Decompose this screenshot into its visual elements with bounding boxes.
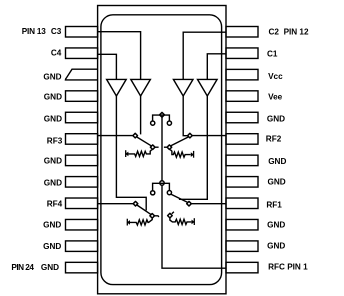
svg-text:RFC PIN 1: RFC PIN 1	[268, 263, 308, 272]
wire C4 to amp A1 input	[98, 54, 117, 79]
svg-text:GND: GND	[44, 93, 62, 102]
wire C2 to amp A3 input	[183, 32, 226, 79]
pin box right 11 GND	[226, 241, 258, 252]
svg-text:GND: GND	[41, 263, 59, 272]
wire RFC common line (center) to RFC pin 1	[162, 117, 226, 268]
ground arrow R3 (left)	[125, 152, 128, 157]
switch arm RF1 (closed to RFC contact)	[171, 194, 188, 202]
wire RF3 pin to switch pole	[98, 135, 134, 137]
node RF2 shunt contact	[167, 145, 172, 150]
pin box right 2 C1	[226, 48, 258, 59]
node RF1 switch pole	[187, 201, 192, 206]
svg-text:GND: GND	[267, 220, 285, 229]
svg-text:GND: GND	[268, 157, 286, 166]
wire C1 to amp A4 input	[207, 54, 226, 80]
wire amp A2 output toward RF3 switch arm	[140, 95, 142, 134]
svg-text:PIN 24: PIN 24	[11, 263, 34, 272]
pin box right 7 GND	[226, 155, 258, 166]
ground arrow R1 (right)	[192, 220, 195, 225]
svg-text:Vee: Vee	[268, 93, 283, 102]
pin box left 3 GND (flag shape)	[65, 69, 97, 80]
pin box left 7 GND	[66, 155, 98, 166]
svg-text:C1: C1	[267, 50, 278, 59]
svg-text:PIN 12: PIN 12	[284, 28, 309, 37]
svg-text:C2: C2	[269, 28, 280, 37]
svg-text:GND: GND	[267, 115, 285, 124]
svg-text:Vcc: Vcc	[268, 72, 283, 81]
switch arm RF3 (closed to shunt)	[137, 137, 152, 146]
svg-text:GND: GND	[43, 220, 61, 229]
resistor R2 (RF2 shunt termination)	[170, 150, 190, 158]
svg-text:C3: C3	[51, 27, 62, 36]
node top bank right throw contact (RF2 series, open)	[167, 121, 171, 125]
svg-text:RF4: RF4	[47, 200, 63, 209]
svg-text:GND: GND	[268, 178, 286, 187]
wire amp A1 output to RF4 switch arm	[116, 95, 146, 210]
node bottom bank right throw contact (RF1 series, closed)	[167, 191, 171, 195]
wire amp A3 output to RF2 switch pole	[183, 95, 188, 136]
node top bank left throw contact (RF3 series, open)	[151, 121, 155, 125]
pin box right 10 GND	[226, 219, 258, 230]
wire bottom bank throw bar	[153, 183, 170, 190]
wire RF4 pin to switch pole	[98, 203, 134, 205]
buffer amp A4 (triangle)	[198, 79, 218, 96]
svg-text:RF3: RF3	[47, 137, 63, 146]
pin box right 1 C2 (pin 12)	[226, 27, 258, 38]
svg-text:C4: C4	[51, 49, 62, 58]
svg-text:GND: GND	[44, 157, 62, 166]
wire top bank throw bar	[153, 115, 170, 121]
wire RF4 shunt contact tick	[154, 216, 159, 217]
svg-text:GND: GND	[43, 242, 61, 251]
pin box right 4 Vee	[226, 91, 258, 102]
svg-text:GND: GND	[44, 179, 62, 188]
node bottom bank left throw contact (RF4 series, open)	[151, 191, 155, 195]
pin box left 9 RF4	[66, 198, 98, 209]
package outline (outer rectangle)	[98, 6, 226, 294]
svg-text:GND: GND	[267, 241, 285, 250]
node RF3 switch pole	[133, 133, 138, 138]
buffer amp A1 (triangle)	[107, 79, 127, 96]
pin box left 2 C4	[66, 48, 98, 59]
wire C3 to amp A2 input	[98, 32, 141, 80]
pin box right 9 RF1	[226, 198, 258, 209]
node RF4 switch pole	[133, 201, 138, 206]
pin box right 8 GND	[226, 177, 258, 188]
resistor R4 (RF4 shunt termination)	[129, 218, 152, 225]
pin box right 3 Vcc	[226, 69, 258, 80]
switch arm RF2 (closed to shunt)	[171, 137, 189, 146]
wire RF2 shunt contact tick	[164, 146, 168, 148]
pin box left 4 GND	[66, 91, 98, 102]
wire RF2 pin to switch pole	[192, 135, 226, 137]
node RF1 shunt contact (open)	[168, 213, 173, 218]
die outline (inner rounded rectangle)	[101, 15, 222, 285]
pin box left 1 C3 (pin 13)	[66, 27, 98, 38]
switch arm RF4 (closed to shunt)	[137, 205, 151, 214]
ground arrow R2 (right)	[191, 152, 194, 157]
pin box left 5 GND	[66, 112, 98, 123]
resistor R1 (RF1 shunt termination)	[170, 218, 192, 225]
pin box right 6 RF2	[226, 134, 258, 145]
pin box left 12 GND (pin 24)	[66, 262, 98, 273]
node RF4 shunt contact	[150, 214, 155, 219]
wire RF1 pin to switch pole	[191, 203, 226, 205]
pin box left 8 GND	[66, 177, 98, 188]
pin box left 11 GND	[66, 241, 98, 252]
wire amp A4 output to RF1 switch arm	[179, 95, 207, 199]
svg-text:RF2: RF2	[266, 134, 282, 143]
pin box right 5 GND	[226, 112, 258, 123]
wire RF3 shunt contact tick	[155, 146, 159, 148]
pin box left 6 RF3	[66, 134, 98, 145]
resistor R3 (RF3 shunt termination)	[127, 150, 152, 157]
node RF3 shunt contact	[150, 145, 155, 150]
svg-text:RF1: RF1	[266, 201, 282, 210]
ground arrow R4 (left)	[127, 220, 130, 225]
svg-text:GND: GND	[44, 115, 62, 124]
node RFC top bank pole	[160, 112, 165, 117]
svg-text:GND: GND	[43, 73, 61, 82]
switch arm stub RF1 shunt (open)	[172, 212, 174, 214]
pin box right 12 RFC (pin 1)	[226, 262, 258, 273]
pin box left 10 GND	[66, 219, 98, 230]
buffer amp A3 (triangle)	[173, 79, 193, 96]
node RFC bottom bank pole	[160, 181, 164, 185]
node RF2 switch pole	[188, 133, 193, 138]
buffer amp A2 (triangle)	[131, 79, 151, 96]
svg-text:PIN 13: PIN 13	[22, 27, 46, 36]
